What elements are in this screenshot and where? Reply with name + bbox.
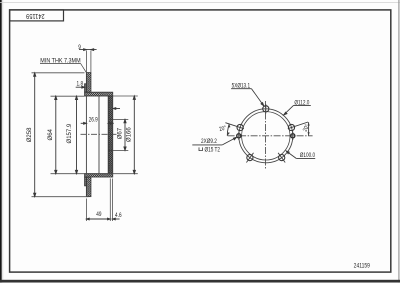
svg-text:1.8: 1.8 — [77, 81, 84, 88]
svg-text:26.9: 26.9 — [89, 117, 98, 124]
svg-text:241159: 241159 — [26, 12, 45, 20]
svg-text:Ø157.9: Ø157.9 — [67, 123, 73, 143]
svg-text:Ø15 T2: Ø15 T2 — [205, 147, 221, 154]
svg-text:Ø112.0: Ø112.0 — [294, 100, 309, 107]
svg-text:4.6: 4.6 — [115, 213, 122, 220]
svg-text:9: 9 — [78, 44, 81, 51]
svg-text:MIN THK 7.3MM: MIN THK 7.3MM — [40, 57, 80, 65]
svg-text:5XØ13.1: 5XØ13.1 — [232, 83, 250, 90]
svg-text:Ø166: Ø166 — [126, 127, 132, 142]
svg-text:Ø258: Ø258 — [27, 127, 33, 142]
svg-text:Ø67: Ø67 — [118, 127, 124, 139]
svg-text:2XØ9.2: 2XØ9.2 — [201, 138, 217, 145]
svg-text:49: 49 — [96, 212, 101, 219]
svg-text:Ø64: Ø64 — [48, 128, 54, 140]
svg-text:241159: 241159 — [354, 263, 370, 270]
svg-text:Ø100.0: Ø100.0 — [300, 153, 315, 160]
